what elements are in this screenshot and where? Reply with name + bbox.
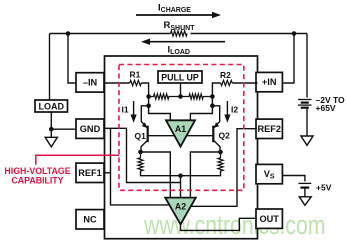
wire GND branch to A2 reference: [111, 128, 170, 205]
resistor Q1 emitter: [138, 152, 143, 173]
wire +IN into R2: [232, 82, 257, 84]
wire A2 output to OUT: [181, 218, 257, 230]
node junction R2 top: [210, 94, 215, 99]
wire R2 to node: [190, 83, 220, 120]
op-amp A1: [166, 120, 195, 146]
svg-text:OUT: OUT: [259, 214, 279, 224]
node junction rail-left (-IN tap): [66, 31, 71, 36]
wire LOAD to ground: [50, 112, 52, 137]
arrow ICHARGE: [136, 12, 221, 18]
svg-text:R2: R2: [220, 70, 231, 80]
wire Q1 collector cross to A2: [141, 152, 171, 198]
wire rail to battery: [306, 34, 308, 98]
callout line high-voltage: [36, 155, 119, 165]
pin +IN box: [256, 72, 282, 91]
transistor Q2: [187, 106, 220, 152]
svg-text:A1: A1: [175, 124, 186, 134]
transistor Q1: [141, 106, 174, 152]
node junction rail center: [178, 173, 183, 178]
svg-text:+IN: +IN: [262, 77, 277, 87]
wire rail to +IN: [282, 34, 294, 84]
svg-text:–IN: –IN: [83, 78, 98, 88]
ground symbol battery V2: [299, 197, 311, 206]
wire GND internal: [104, 128, 181, 182]
node junction Q2 collector: [218, 150, 223, 155]
svg-text:CAPABILITY: CAPABILITY: [11, 175, 63, 185]
wire REF1 internal: [104, 172, 111, 174]
pin -IN box: [76, 73, 104, 92]
battery V2 +5V: [299, 183, 312, 196]
dashed high-voltage boundary box: [119, 65, 244, 191]
wire Q2 collector cross to A2: [190, 152, 220, 198]
wire rail to -IN: [68, 34, 76, 84]
resistor RSHUNT symbol: [171, 31, 188, 36]
node junction Q1 collector: [138, 150, 143, 155]
svg-text:I1: I1: [122, 105, 129, 115]
svg-text:NC: NC: [83, 214, 97, 224]
current source I1 arrow: [131, 101, 137, 123]
svg-text:+65V: +65V: [316, 103, 336, 113]
svg-text:PULL UP: PULL UP: [161, 72, 199, 82]
wire rail to LOAD: [49, 34, 51, 101]
wire R1 to node: [141, 83, 170, 120]
wire REF2 internal: [191, 129, 256, 207]
svg-text:www.cntronics.com: www.cntronics.com: [143, 210, 325, 240]
wire -IN into R1: [104, 82, 130, 84]
resistor right bias: [181, 94, 213, 99]
LOAD box: [35, 100, 68, 112]
svg-text:HIGH-VOLTAGE: HIGH-VOLTAGE: [4, 166, 70, 176]
resistor R1: [130, 80, 142, 85]
svg-text:Q2: Q2: [219, 131, 231, 141]
node junction R1 top: [146, 94, 151, 99]
pin GND box: [76, 119, 104, 138]
wire emitter resistors common rail: [141, 172, 221, 176]
svg-text:A2: A2: [175, 202, 186, 212]
ground symbol left: [45, 137, 57, 147]
svg-text:Q1: Q1: [135, 131, 147, 141]
op-amp A2: [165, 198, 196, 225]
arrow ILOAD: [141, 39, 225, 45]
resistor Q2 emitter: [218, 152, 223, 173]
svg-text:I2: I2: [231, 104, 238, 114]
svg-text:REF1: REF1: [78, 168, 102, 178]
ground symbol battery V1: [301, 136, 313, 145]
svg-text:GND: GND: [80, 124, 101, 134]
pin NC box: [76, 210, 104, 229]
wire center to A2: [180, 176, 182, 198]
op-amp IC outline: [105, 56, 258, 239]
PULL UP box: [158, 71, 202, 83]
svg-text:R1: R1: [130, 70, 141, 80]
svg-text:LOAD: LOAD: [39, 101, 65, 111]
wire VS to battery V2: [282, 176, 305, 182]
node junction center: [178, 94, 183, 99]
svg-text:REF2: REF2: [257, 124, 281, 134]
pin REF2 box: [256, 119, 282, 138]
wire GND to ground node: [51, 128, 76, 130]
pin REF1 box: [76, 163, 104, 182]
node junction R1 lower: [146, 104, 151, 109]
svg-text:+5V: +5V: [316, 183, 332, 193]
pin OUT box: [256, 209, 282, 228]
wire top rail: [50, 33, 308, 35]
current source I2 arrow: [224, 101, 230, 123]
node junction R2 lower: [210, 104, 215, 109]
pin VS box: [256, 164, 282, 183]
wire PULL UP to center node: [180, 83, 182, 97]
battery V1 -2V to +65V: [298, 100, 312, 137]
node junction rail-right (+IN tap): [292, 31, 297, 36]
resistor R2: [221, 80, 233, 85]
resistor left bias: [149, 94, 181, 99]
node junction ground: [49, 127, 54, 132]
